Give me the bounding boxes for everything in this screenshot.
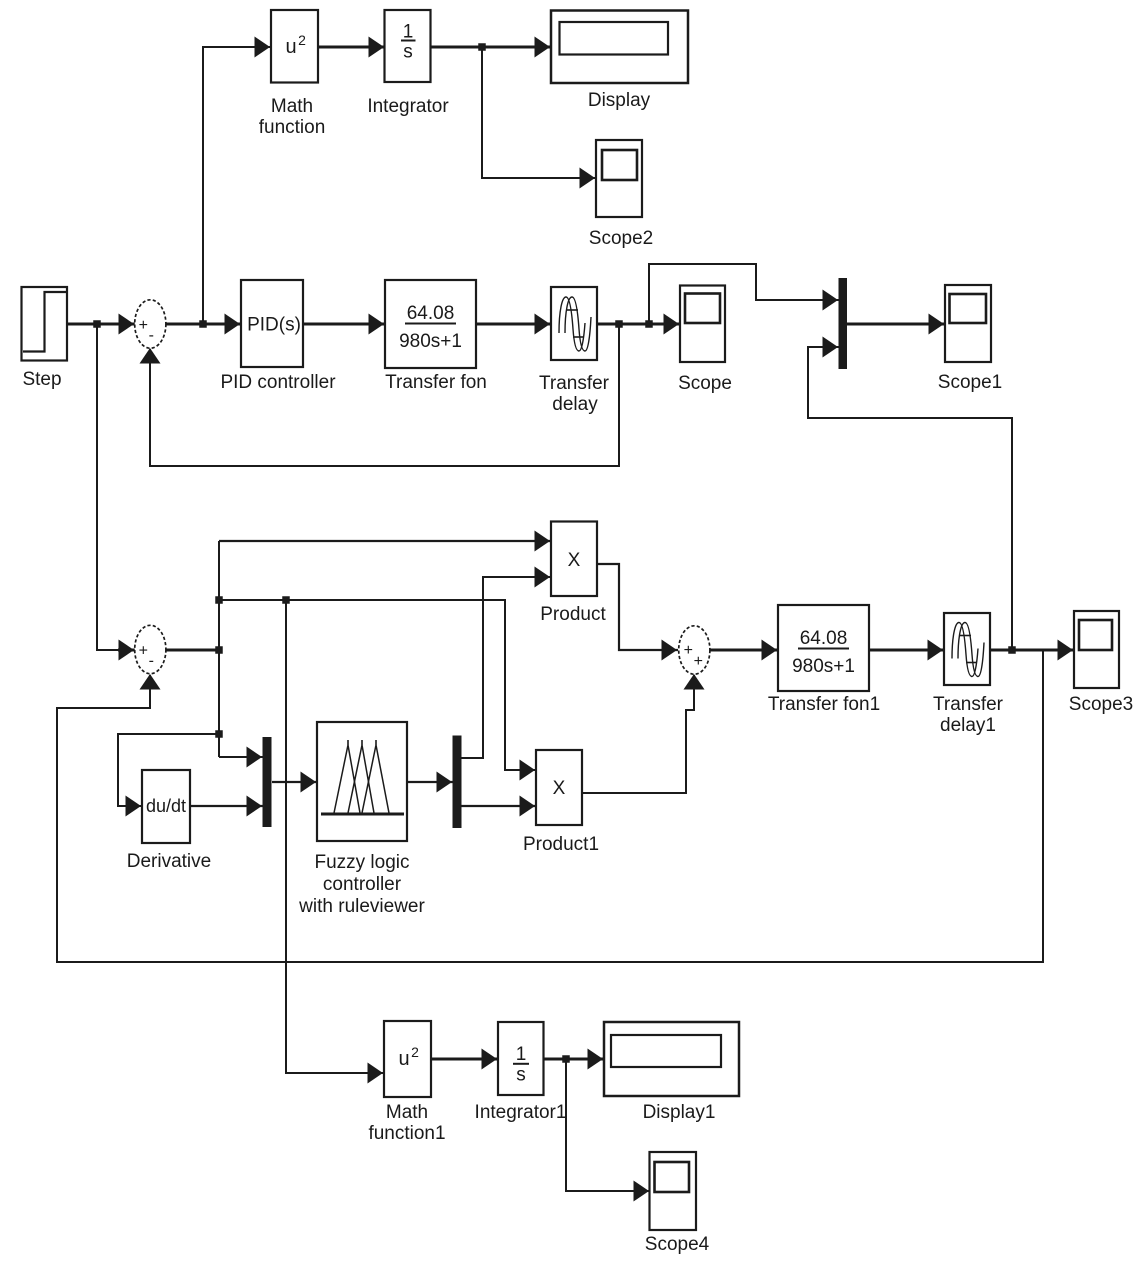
block PID controller (241, 280, 303, 367)
wire branch down to Scope2 (482, 47, 596, 189)
wire Transfer fon1 to Transfer delay1 (869, 640, 944, 661)
wire Demux output 1 to Product input 2 (461, 567, 551, 759)
svg-text:Integrator: Integrator (367, 96, 449, 117)
svg-text:Step: Step (22, 369, 61, 390)
svg-text:s: s (403, 42, 413, 63)
block Display1 (604, 1022, 739, 1096)
svg-text:Integrator1: Integrator1 (475, 1102, 567, 1123)
label Product1 (523, 834, 599, 855)
svg-text:delay: delay (552, 394, 598, 415)
svg-text:+: + (139, 643, 148, 660)
svg-text:-: - (149, 327, 154, 344)
wire Sum3 to Transfer fon1 (710, 640, 778, 661)
svg-text:Transfer: Transfer (933, 694, 1004, 715)
mux Mux1 (263, 737, 272, 827)
wire branch up to Math function (203, 37, 271, 325)
label Derivative (127, 851, 211, 872)
block Scope4 (650, 1152, 697, 1230)
wire Transfer delay to Scope (597, 314, 680, 335)
svg-text:function: function (259, 117, 326, 138)
block Transfer delay (551, 287, 597, 360)
wire feedback to Sum1 minus input (140, 324, 620, 466)
svg-text:+: + (684, 642, 693, 659)
wire Math function to Integrator (318, 37, 385, 58)
demux Demux (453, 736, 462, 829)
block Product1 (536, 750, 582, 825)
svg-text:2: 2 (411, 1044, 419, 1060)
block Scope1 (945, 285, 991, 362)
wire branch down to Sum2 input (97, 324, 135, 661)
block Derivative (142, 770, 190, 843)
label Display1 (643, 1102, 716, 1123)
svg-text:Scope1: Scope1 (938, 372, 1002, 393)
label Math function1 (368, 1102, 445, 1144)
sum Sum1 (135, 300, 166, 348)
svg-text:-: - (149, 653, 154, 670)
wire to Mux1 input 1 (219, 747, 263, 768)
wire Step output to Sum1 (67, 314, 135, 335)
label Scope (678, 373, 732, 394)
block Fuzzy logic controller (317, 722, 407, 841)
block Math function (271, 10, 318, 83)
label Integrator (367, 96, 449, 117)
svg-text:Math: Math (386, 1102, 428, 1123)
svg-text:Product1: Product1 (523, 834, 599, 855)
block Product (551, 522, 597, 597)
wire Product1 to Sum3 plus input (582, 674, 705, 793)
block Transfer delay1 (944, 613, 990, 685)
wire to Product1 input 1 (219, 596, 536, 780)
svg-text:controller: controller (323, 874, 402, 895)
svg-text:1: 1 (403, 22, 414, 43)
svg-text:Transfer fon1: Transfer fon1 (768, 694, 880, 715)
wire Sum1 output to PID controller (166, 314, 241, 335)
label Scope1 (938, 372, 1002, 393)
svg-text:du/dt: du/dt (146, 796, 186, 816)
wire to Math function1 (286, 600, 384, 1084)
label Scope3 (1069, 694, 1133, 715)
wire Derivative to Mux1 input 2 (190, 796, 263, 817)
label Transfer fon1 (768, 694, 880, 715)
block Step (22, 287, 68, 361)
label Math function (259, 96, 326, 138)
svg-text:with ruleviewer: with ruleviewer (298, 896, 425, 917)
svg-text:PID(s): PID(s) (247, 315, 301, 336)
svg-text:delay1: delay1 (940, 715, 996, 736)
block Scope2 (596, 140, 642, 217)
block Transfer fon1 (778, 605, 869, 691)
svg-text:+: + (139, 317, 148, 334)
svg-text:64.08: 64.08 (800, 628, 848, 649)
svg-text:Transfer fon: Transfer fon (385, 372, 487, 393)
wire Sum2 output to node (166, 646, 223, 654)
wire PID controller to Transfer fon (303, 314, 385, 335)
wire Transfer fon to Transfer delay (476, 314, 551, 335)
label Transfer fon (385, 372, 487, 393)
svg-text:Display: Display (588, 90, 651, 111)
block Scope3 (1074, 611, 1119, 688)
label PID controller (220, 372, 336, 393)
svg-text:Transfer: Transfer (539, 373, 610, 394)
label Scope4 (645, 1234, 710, 1255)
svg-text:s: s (516, 1065, 526, 1086)
svg-text:2: 2 (298, 32, 306, 48)
svg-text:X: X (553, 778, 566, 799)
svg-text:X: X (568, 550, 581, 571)
svg-text:Scope4: Scope4 (645, 1234, 710, 1255)
label Integrator1 (475, 1102, 567, 1123)
svg-text:980s+1: 980s+1 (399, 331, 462, 352)
wire Integrator to Display (430, 37, 551, 58)
svg-text:Display1: Display1 (643, 1102, 716, 1123)
svg-text:Scope3: Scope3 (1069, 694, 1133, 715)
wire branch to Mux input 1 (649, 264, 839, 324)
block Math function1 (384, 1021, 431, 1097)
label Transfer delay (539, 373, 610, 415)
wire error net vertical (215, 541, 223, 757)
label Transfer delay1 (933, 694, 1004, 736)
block Integrator1 (498, 1022, 544, 1095)
wire to Derivative input (118, 734, 219, 817)
svg-text:Product: Product (540, 604, 606, 625)
label Product (540, 604, 606, 625)
wire Integrator1 to Display1 (543, 1049, 604, 1070)
label Display (588, 90, 651, 111)
label Scope2 (589, 228, 653, 249)
wire Product to Sum3 (597, 564, 678, 661)
svg-text:1: 1 (516, 1044, 527, 1065)
block Display (551, 11, 688, 84)
wire Math function1 to Integrator1 (431, 1049, 498, 1070)
mux Mux (839, 278, 848, 369)
block Integrator (385, 10, 431, 82)
wire feedback to Sum2 minus input (57, 650, 1043, 962)
wire Fuzzy controller to Demux (407, 772, 453, 793)
wire Demux output 2 to Product1 input 2 (461, 796, 536, 817)
svg-text:980s+1: 980s+1 (792, 656, 855, 677)
sum Sum3 (679, 626, 710, 674)
block Scope (680, 286, 725, 363)
svg-text:function1: function1 (368, 1123, 445, 1144)
svg-text:u: u (398, 1048, 409, 1070)
label Fuzzy logic controller with ruleviewer (298, 852, 425, 917)
svg-text:Math: Math (271, 96, 313, 117)
svg-text:64.08: 64.08 (407, 303, 455, 324)
wire branch to Mux input 2 (808, 337, 1012, 651)
svg-text:Derivative: Derivative (127, 851, 211, 872)
block Transfer fon (385, 280, 476, 368)
svg-text:+: + (694, 653, 703, 670)
wire Transfer delay1 to Scope3 (990, 640, 1074, 661)
wire Mux to Scope1 (847, 314, 945, 335)
wire Mux1 to Fuzzy controller (272, 772, 317, 793)
svg-text:Fuzzy logic: Fuzzy logic (314, 852, 409, 873)
svg-text:Scope2: Scope2 (589, 228, 653, 249)
svg-text:PID controller: PID controller (220, 372, 336, 393)
label Step (22, 369, 61, 390)
wire branch down to Scope4 (566, 1059, 650, 1202)
wire to Product input 1 (219, 531, 551, 552)
svg-text:u: u (285, 36, 296, 58)
svg-text:Scope: Scope (678, 373, 732, 394)
sum Sum2 (135, 625, 166, 673)
